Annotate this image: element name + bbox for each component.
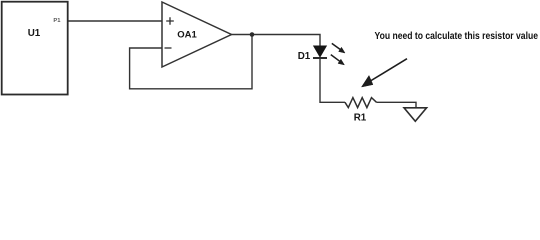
ground symbol: [404, 108, 427, 122]
LED D1 cathode bar: [313, 57, 327, 59]
junction dot: [250, 32, 255, 37]
op-amp OA1: [162, 2, 232, 67]
op-amp minus symbol: [165, 47, 172, 49]
LED D1 anode triangle: [313, 46, 326, 57]
resistor R1 zigzag: [345, 98, 377, 108]
svg-text:U1: U1: [28, 28, 41, 39]
svg-text:You need to calculate this res: You need to calculate this resistor valu…: [375, 31, 539, 42]
emission arrow 2: [331, 55, 345, 65]
annotation arrow to resistor: [362, 59, 408, 87]
svg-text:P1: P1: [53, 18, 61, 24]
svg-text:OA1: OA1: [177, 30, 197, 41]
wire U1.P1 to op-amp + input: [69, 20, 163, 22]
svg-text:R1: R1: [354, 113, 367, 124]
op-amp plus symbol: [166, 17, 174, 25]
feedback wire (minus input to output): [130, 35, 252, 89]
wire LED cathode to resistor: [320, 58, 345, 102]
svg-text:D1: D1: [298, 51, 311, 62]
emission arrow 1: [332, 43, 345, 53]
output wire to LED: [232, 35, 321, 47]
wire resistor to ground: [377, 102, 417, 108]
IC U1: [2, 2, 68, 95]
